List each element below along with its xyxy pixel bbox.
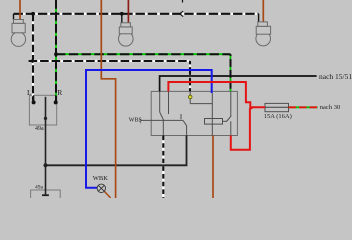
turn signal switch box (49a)	[29, 95, 56, 125]
wire brown lamp3	[262, 0, 264, 22]
lead to bottom red terminal	[230, 121, 232, 135]
fixed contact from green terminal	[230, 91, 232, 116]
warning lamp WBK	[97, 184, 105, 192]
WBS line	[142, 119, 184, 121]
wire black/white dashed vertical into relay	[189, 61, 191, 91]
junction dot lamp2	[120, 12, 124, 16]
indicator lamp dot	[188, 95, 192, 99]
wire red/green dashed to nach 30	[289, 106, 318, 108]
svg-text:{: {	[139, 118, 142, 124]
fuse 15A	[265, 103, 289, 111]
lead to bottom dashed terminal	[162, 120, 164, 135]
wire red upper	[168, 82, 265, 107]
lead through coil	[211, 93, 213, 136]
lamp L3	[256, 22, 271, 46]
wire black solid bottom horizontal	[46, 136, 187, 166]
wire black/white dashed horizontal top	[14, 13, 259, 15]
lamp3 bracket wire	[258, 14, 260, 22]
terminal L lead	[33, 95, 35, 102]
coil to contact	[223, 120, 228, 122]
relay / emergency flasher unit box	[151, 91, 237, 135]
lamp1 bracket wire	[13, 14, 15, 20]
arrow on middle dashed line	[28, 59, 33, 63]
svg-text:R: R	[57, 88, 62, 97]
junction node	[44, 163, 48, 167]
lamp2 bracket wire	[121, 14, 123, 23]
svg-text:WBK: WBK	[93, 175, 108, 182]
lead from dashed terminal to indicator	[189, 91, 191, 95]
wire black/green dashed horizontal	[56, 53, 231, 55]
ground T-bar in box 49a	[42, 194, 49, 196]
chevron arrow on top dashed line	[180, 11, 184, 17]
wire dark-red lamp2	[127, 0, 129, 23]
contact from terminal (black wire)	[159, 91, 161, 112]
wire black/white dashed vertical below relay	[162, 136, 164, 199]
wire brown from relay bottom	[212, 136, 214, 199]
wire black/green dashed vertical into relay	[230, 54, 232, 91]
wire brown long left	[101, 0, 115, 198]
fixed contact stub	[180, 114, 182, 119]
wire black/white dashed vertical to L	[32, 14, 34, 101]
svg-text:49a: 49a	[35, 126, 44, 132]
switch arm left	[160, 112, 164, 120]
contact from red terminal	[168, 91, 170, 114]
wire red lower	[231, 107, 253, 150]
relay switch arm	[227, 116, 232, 122]
terminal R lead	[55, 95, 57, 102]
relay internals	[142, 91, 232, 135]
relay coil	[205, 119, 223, 125]
lamp L1	[11, 20, 25, 47]
wire black solid to nach 15/51	[160, 76, 317, 91]
svg-text:L: L	[27, 88, 32, 97]
wire brown lamp1	[19, 0, 21, 23]
lamp L2	[119, 23, 134, 46]
pivot contact dot	[44, 117, 47, 120]
wire black/white dashed horizontal middle	[29, 60, 190, 62]
lead to bottom black terminal	[186, 126, 188, 136]
svg-text:nach 30: nach 30	[320, 104, 340, 111]
switch pivot wire	[45, 97, 47, 195]
junction dot green line	[54, 52, 58, 56]
wire brown from warning lamp	[104, 191, 110, 198]
svg-text:15A (16A): 15A (16A)	[264, 113, 292, 120]
connector box 49a bottom	[31, 190, 61, 200]
top edge tick	[182, 0, 184, 3]
junction dot top-left	[31, 12, 35, 16]
switch arm right	[183, 120, 187, 125]
wire black/green dashed vertical to R	[55, 0, 57, 101]
svg-text:nach 15/51: nach 15/51	[319, 72, 352, 81]
wire blue	[86, 70, 212, 188]
svg-text:49a: 49a	[35, 185, 44, 191]
cross link	[190, 103, 212, 105]
